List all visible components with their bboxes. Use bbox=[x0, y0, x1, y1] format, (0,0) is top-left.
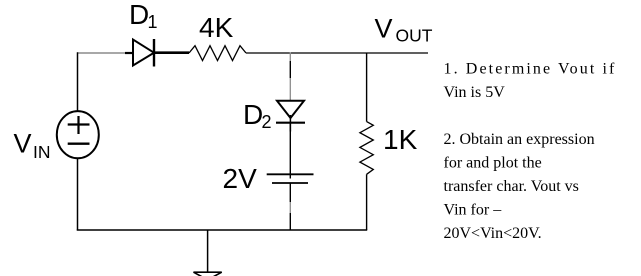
wire middle vertical top black segment bbox=[289, 61, 291, 78]
wire left vertical upper (VIN top) bbox=[77, 52, 79, 112]
svg-text:D: D bbox=[243, 99, 263, 130]
svg-text:V: V bbox=[375, 13, 393, 43]
battery 2V bbox=[267, 174, 314, 183]
wire right vertical upper (VOUT to R 1K) bbox=[366, 53, 368, 122]
wire ground stub bbox=[207, 230, 209, 272]
svg-text:1K: 1K bbox=[383, 124, 418, 155]
wire middle vertical top gray segment 2 bbox=[289, 78, 291, 100]
svg-text:transfer char. Vout vs: transfer char. Vout vs bbox=[444, 178, 579, 195]
wire right vertical lower (R 1K to bottom) bbox=[366, 174, 368, 230]
diode D2 bbox=[276, 101, 305, 132]
svg-text:IN: IN bbox=[33, 142, 51, 162]
wire middle vertical (D2 cathode to battery) bbox=[289, 123, 291, 174]
resistor 4K bbox=[189, 46, 246, 61]
svg-text:1. Determine Vout if: 1. Determine Vout if bbox=[444, 61, 617, 78]
wire middle vertical top gray segment bbox=[289, 53, 291, 62]
svg-text:4K: 4K bbox=[199, 12, 234, 43]
wire left vertical lower (VIN bottom) bbox=[77, 158, 79, 231]
annotation question text bbox=[444, 61, 617, 243]
wire D1 cathode to R 4K (thick) bbox=[154, 51, 189, 54]
svg-text:2. Obtain an expression: 2. Obtain an expression bbox=[444, 131, 595, 148]
label D1 bbox=[129, 0, 158, 32]
label VIN bbox=[14, 128, 51, 162]
wire top-left horizontal (gray, VIN+ to D1 anode) bbox=[77, 52, 127, 54]
wire middle vertical bottom black segment 2 bbox=[289, 213, 291, 230]
wire middle vertical bottom gray segment bbox=[289, 202, 291, 213]
svg-text:for and plot the: for and plot the bbox=[444, 155, 542, 172]
svg-text:Vin for –: Vin for – bbox=[444, 202, 503, 219]
wire D1 anode stub bbox=[125, 52, 133, 54]
svg-text:OUT: OUT bbox=[396, 26, 433, 46]
node VOUT label bbox=[375, 13, 433, 45]
resistor 1K bbox=[360, 122, 373, 175]
svg-text:20V<Vin<20V.: 20V<Vin<20V. bbox=[444, 225, 542, 242]
svg-text:2: 2 bbox=[262, 112, 272, 132]
label D2 bbox=[243, 99, 272, 132]
wire bottom horizontal bbox=[77, 229, 367, 231]
wire top horizontal (R 4K to VOUT) bbox=[246, 52, 428, 54]
svg-text:1: 1 bbox=[148, 12, 158, 32]
svg-text:D: D bbox=[129, 0, 149, 30]
source VIN bbox=[57, 111, 99, 158]
svg-text:Vin is 5V: Vin is 5V bbox=[444, 84, 506, 101]
svg-text:2V: 2V bbox=[223, 163, 258, 194]
svg-text:V: V bbox=[14, 128, 32, 158]
diode D1 bbox=[133, 39, 154, 67]
wire middle vertical bottom black segment bbox=[289, 183, 291, 202]
ground bbox=[194, 272, 222, 276]
